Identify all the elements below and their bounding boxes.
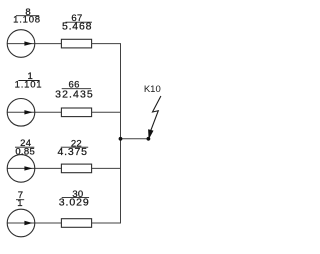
tap wire to fault node xyxy=(121,138,149,140)
label I4 value 7/1 xyxy=(16,190,24,209)
svg-text:5.468: 5.468 xyxy=(62,21,92,33)
wire row1 source to resistor xyxy=(7,43,61,45)
svg-text:K10: K10 xyxy=(144,84,161,95)
label I2 value 1/1.101 xyxy=(15,71,43,90)
current source I2 xyxy=(7,99,35,127)
svg-text:0.85: 0.85 xyxy=(15,146,35,157)
label R3 value 22/4.375 xyxy=(58,138,89,158)
label I1 value 8/1.108 xyxy=(13,7,41,26)
current source I4 xyxy=(7,209,35,237)
label K10 xyxy=(144,84,161,95)
svg-text:32.435: 32.435 xyxy=(55,88,94,100)
svg-text:4.375: 4.375 xyxy=(58,146,88,158)
wire row2 resistor to bus xyxy=(92,111,121,113)
resistor R1 xyxy=(61,39,91,48)
node dot fault point xyxy=(147,137,151,141)
svg-text:1.101: 1.101 xyxy=(15,79,43,90)
switch K10 lightning arrow xyxy=(148,96,161,140)
wire row1 resistor to bus xyxy=(92,43,121,45)
wire row3 resistor to bus xyxy=(92,167,121,169)
label R2 value 66/32.435 xyxy=(55,80,94,101)
label R4 value 30/3.029 xyxy=(59,189,90,209)
label I3 value 24/0.85 xyxy=(15,138,35,157)
wire row2 source to resistor xyxy=(7,111,61,113)
svg-text:1.108: 1.108 xyxy=(13,15,41,26)
resistor R4 xyxy=(61,219,91,228)
resistor R3 xyxy=(61,164,91,173)
svg-text:3.029: 3.029 xyxy=(59,197,90,209)
wire row4 source to resistor xyxy=(7,222,61,224)
current source I3 xyxy=(7,155,35,183)
wire row3 source to resistor xyxy=(7,167,61,169)
junction dot on bus xyxy=(119,137,123,141)
current source I1 xyxy=(7,30,35,58)
wire row4 resistor to bus xyxy=(92,222,121,224)
svg-text:1: 1 xyxy=(17,198,23,209)
bus wire vertical xyxy=(120,44,122,223)
label R1 value 67/5.468 xyxy=(62,13,92,32)
resistor R2 xyxy=(61,108,91,117)
